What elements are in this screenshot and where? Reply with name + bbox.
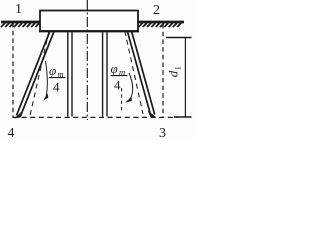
- right angle dashed vertical reference: [121, 88, 123, 113]
- d1 dimension line: [184, 38, 186, 118]
- right angle arc (with arrowhead): [129, 73, 133, 99]
- d1 top tick: [166, 37, 192, 39]
- right battered pile tip arrow: [148, 110, 156, 117]
- svg-text:1: 1: [174, 66, 183, 70]
- left battered pile tip arrow: [15, 111, 23, 119]
- svg-text:3: 3: [159, 126, 166, 140]
- svg-text:m: m: [58, 69, 64, 79]
- ground line left: [1, 21, 40, 24]
- pile cap bottom edge (thicker): [39, 30, 139, 32]
- cap centerline (dash-dot): [86, 0, 88, 120]
- dashed vertical 1-4 (left side of equivalent pier): [12, 23, 14, 118]
- svg-text:φ: φ: [111, 61, 118, 76]
- ground line right: [138, 21, 184, 24]
- dashed horizontal 4-3 (pile tip plane): [13, 116, 178, 118]
- svg-text:m: m: [119, 67, 125, 77]
- left battered pile (double line): [17, 31, 51, 116]
- svg-text:4: 4: [53, 80, 60, 95]
- svg-text:1: 1: [15, 2, 22, 17]
- pile cap rectangle: [40, 11, 138, 32]
- svg-text:4: 4: [114, 78, 121, 93]
- d1 dimension label (rotated): [166, 66, 183, 77]
- svg-text:2: 2: [153, 3, 160, 18]
- middle vertical pile (right): [102, 31, 104, 117]
- ground hatching left: [1, 23, 39, 27]
- left label fraction bar: [49, 77, 66, 79]
- right battered pile (double line): [127, 31, 150, 115]
- ground hatching right: [139, 23, 182, 27]
- d1 bottom tick: [174, 116, 192, 118]
- svg-text:φ: φ: [49, 63, 56, 78]
- right dashed spread line: [125, 31, 143, 114]
- right label fraction bar: [111, 75, 128, 77]
- middle vertical pile (left): [67, 31, 69, 117]
- left dashed spread line (phi_m/4 from vertical): [30, 31, 49, 116]
- left angle reference arc (with arrowhead): [46, 61, 48, 96]
- svg-text:d: d: [166, 70, 181, 77]
- svg-text:4: 4: [8, 126, 15, 140]
- dashed vertical 2-3 (right side of equivalent pier): [162, 24, 164, 117]
